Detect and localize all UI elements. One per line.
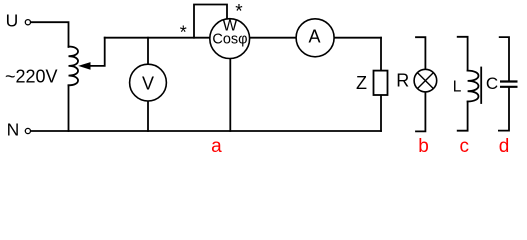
svg-text:C: C xyxy=(486,74,498,93)
capacitor C plates xyxy=(500,82,518,87)
svg-text:U: U xyxy=(6,11,19,31)
impedance box Z xyxy=(374,71,388,95)
wire load branch right side through Z xyxy=(380,38,382,131)
voltmeter V xyxy=(130,64,167,101)
svg-text:b: b xyxy=(418,136,429,157)
autotransformer T1 winding xyxy=(69,47,79,86)
wire bottom N rail xyxy=(31,130,382,132)
wattmeter current-coil bracket xyxy=(194,5,227,38)
svg-text:a: a xyxy=(211,136,222,157)
svg-text:N: N xyxy=(7,120,20,140)
wire voltmeter branch xyxy=(147,38,149,131)
terminal U xyxy=(25,20,30,25)
svg-text:*: * xyxy=(235,2,243,23)
lamp R xyxy=(414,69,437,92)
inductor L coil xyxy=(468,71,479,102)
svg-text:*: * xyxy=(180,22,187,42)
wire U terminal to transformer top xyxy=(31,22,69,47)
ammeter A xyxy=(296,19,334,57)
svg-text:R: R xyxy=(396,71,409,91)
capacitor branch d terminals xyxy=(499,37,509,131)
wattmeter W xyxy=(210,19,250,59)
wire wiper to top rail xyxy=(90,38,105,66)
inductor branch c terminals xyxy=(458,37,482,131)
svg-text:d: d xyxy=(499,136,510,157)
svg-text:L: L xyxy=(453,79,462,96)
svg-text:~220V: ~220V xyxy=(5,67,58,87)
wiper arrowhead xyxy=(78,62,90,70)
svg-text:A: A xyxy=(308,27,320,47)
svg-text:c: c xyxy=(459,136,469,157)
inductor core line xyxy=(480,68,482,104)
svg-text:Cosφ: Cosφ xyxy=(212,32,247,48)
wire transformer bottom to N rail xyxy=(68,85,70,131)
lamp branch b terminals xyxy=(416,37,425,131)
terminal N xyxy=(25,128,30,133)
wire top rail xyxy=(105,37,381,39)
svg-text:Z: Z xyxy=(356,73,367,93)
svg-text:V: V xyxy=(142,73,154,93)
wire wattmeter voltage coil to bottom rail xyxy=(229,58,231,131)
